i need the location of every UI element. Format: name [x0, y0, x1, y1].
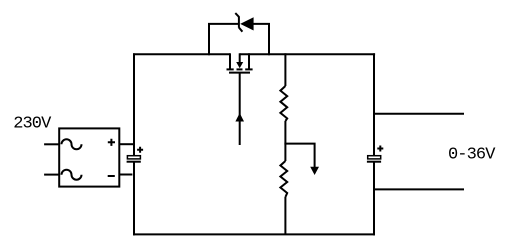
Q1 channel bar left — [227, 68, 234, 70]
capacitor C2 — [367, 156, 381, 162]
D1 cathode top tail — [235, 13, 239, 17]
Q1 channel bar right — [245, 68, 252, 70]
Q1 channel bar middle — [237, 68, 243, 70]
capacitor C1 — [127, 156, 141, 162]
R1 middle lead — [284, 121, 286, 161]
svg-text:0-36V: 0-36V — [448, 146, 496, 165]
svg-text:230V: 230V — [13, 114, 52, 133]
wire left rail lower — [133, 163, 135, 236]
Q1 gate bar — [229, 72, 250, 74]
Q1 source stub — [248, 53, 250, 68]
D1 cathode bottom tail — [239, 28, 243, 32]
wire top rail drain side — [133, 53, 230, 55]
potentiometer R1 top lead — [284, 53, 286, 86]
C2 plus label — [377, 146, 383, 152]
C1 plus label — [137, 147, 143, 153]
D1 triangle — [240, 17, 253, 30]
rectifier B1 box — [59, 128, 119, 186]
wire output minus — [374, 188, 464, 190]
wire top rail source side — [240, 53, 375, 55]
R1 upper element — [280, 86, 287, 121]
wire bottom rail — [133, 233, 375, 235]
wire B1 plus output — [119, 143, 134, 145]
R1 lower element — [280, 161, 287, 197]
wire right rail upper — [373, 53, 375, 155]
wire B1 minus output — [119, 174, 132, 176]
R1 bottom lead — [284, 197, 286, 234]
wiper down arrow — [310, 167, 319, 175]
B1 ac sine bottom — [62, 170, 82, 180]
wire AC input N — [44, 174, 60, 176]
zener diode D1 left lead — [209, 24, 238, 55]
D1 right lead — [253, 24, 269, 55]
B1 ac sine top — [62, 139, 82, 149]
Q1 gate lead — [239, 73, 241, 145]
wire right rail lower — [373, 163, 375, 236]
transistor Q1 drain stub — [229, 53, 231, 68]
B1 plus label — [108, 139, 115, 146]
wire left rail upper — [133, 53, 135, 155]
B1 minus label — [108, 175, 115, 177]
Q1 bulk arrow — [239, 53, 241, 63]
R1 wiper tap wire — [284, 144, 314, 169]
wire output plus — [374, 113, 464, 115]
D1 cathode bar — [238, 16, 240, 28]
gate lead up arrow — [235, 113, 244, 122]
wire AC input L — [44, 143, 60, 145]
